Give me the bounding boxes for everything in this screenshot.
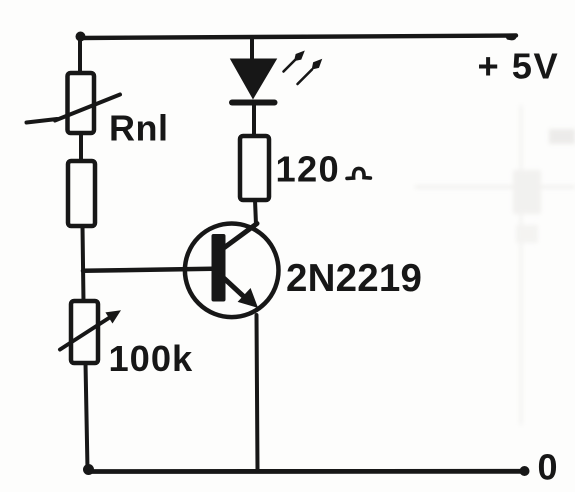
transistor Q1 body circle (185, 223, 279, 317)
LED light arrow 2 (298, 70, 313, 85)
wire top rail to Rnl (78, 37, 82, 75)
thermistor diagonal stroke (55, 95, 120, 121)
node junction top-left (76, 32, 86, 42)
LED light arrow 1 head (295, 52, 304, 60)
node bottom-left junction (83, 464, 94, 475)
wire Rnl to R2 (79, 133, 83, 162)
wire 100k to bottom rail (86, 363, 88, 469)
svg-text:120: 120 (276, 148, 340, 189)
resistor Rnl (68, 73, 95, 133)
wire top rail (80, 36, 516, 39)
wire rail to LED (250, 38, 254, 62)
LED light arrow 2 head (313, 60, 321, 69)
LED cathode bar (229, 100, 278, 106)
faint scan artifact marks (415, 105, 575, 425)
node 0V end dot (520, 466, 530, 476)
svg-text:0: 0 (538, 447, 558, 488)
LED light arrow 1 (284, 60, 296, 72)
thermistor tail stroke (27, 119, 58, 123)
potentiometer 100k body (71, 301, 98, 363)
transistor emitter stroke (221, 276, 248, 301)
label ohm symbol (347, 168, 370, 178)
wire emitter vertical (257, 315, 258, 470)
transistor emitter arrowhead (240, 290, 256, 306)
+5V rail end tick (504, 34, 517, 40)
potentiometer arrowhead (107, 312, 119, 322)
wire base horizontal (83, 269, 212, 271)
resistor R2 (68, 161, 95, 226)
wire R2 to base node (83, 226, 84, 302)
svg-text:Rnl: Rnl (109, 108, 169, 149)
transistor base bar (212, 234, 226, 302)
wire LED to R3 (252, 105, 256, 137)
transistor collector stroke (221, 224, 257, 251)
potentiometer arrow stroke (60, 316, 112, 350)
wire R3 to collector (255, 200, 256, 225)
resistor R3 120 ohm (240, 136, 269, 200)
svg-text:+ 5V: + 5V (478, 46, 560, 87)
LED D1 triangle (232, 60, 276, 98)
wire bottom rail (88, 469, 525, 474)
svg-text:2N2219: 2N2219 (286, 257, 422, 300)
svg-text:100k: 100k (109, 338, 194, 379)
